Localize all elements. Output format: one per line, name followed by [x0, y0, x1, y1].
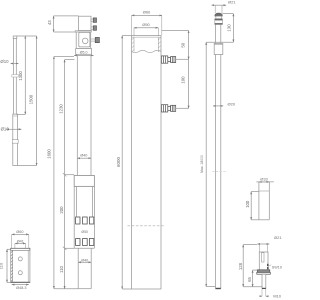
svg-text:Ø50: Ø50 — [142, 22, 150, 27]
svg-text:100: 100 — [245, 200, 250, 208]
svg-text:Max. 18000: Max. 18000 — [200, 155, 204, 173]
svg-text:1500: 1500 — [28, 94, 33, 104]
svg-text:Ø40: Ø40 — [80, 154, 87, 158]
svg-text:Ø40: Ø40 — [81, 258, 88, 262]
svg-text:Ø21: Ø21 — [274, 235, 282, 240]
svg-text:Ø16: Ø16 — [1, 127, 10, 132]
svg-text:110: 110 — [0, 262, 4, 269]
svg-text:65: 65 — [247, 277, 252, 282]
svg-text:Ø5.0: Ø5.0 — [80, 51, 88, 55]
svg-text:130: 130 — [226, 24, 231, 32]
svg-text:Ø20: Ø20 — [228, 101, 236, 106]
svg-text:Ø33: Ø33 — [260, 176, 268, 181]
svg-text:6000: 6000 — [116, 156, 121, 167]
svg-text:Ø50: Ø50 — [81, 230, 88, 234]
svg-text:Ø48.3: Ø48.3 — [16, 286, 26, 290]
svg-text:M10: M10 — [273, 293, 282, 298]
svg-text:100: 100 — [181, 76, 186, 84]
svg-text:Ø41: Ø41 — [17, 240, 24, 244]
svg-text:Ø21: Ø21 — [228, 0, 236, 4]
svg-text:1600: 1600 — [46, 149, 51, 159]
svg-text:Ø60: Ø60 — [16, 230, 23, 234]
svg-text:1230: 1230 — [58, 104, 63, 114]
svg-text:110: 110 — [59, 265, 64, 272]
svg-text:128: 128 — [238, 262, 243, 270]
svg-text:200: 200 — [59, 206, 64, 214]
svg-text:43: 43 — [47, 20, 52, 25]
svg-text:50: 50 — [181, 42, 186, 47]
svg-text:Ø10: Ø10 — [0, 59, 9, 64]
svg-text:1300: 1300 — [18, 71, 23, 81]
svg-text:Ø60: Ø60 — [143, 10, 151, 15]
svg-text:SW19: SW19 — [272, 265, 282, 269]
